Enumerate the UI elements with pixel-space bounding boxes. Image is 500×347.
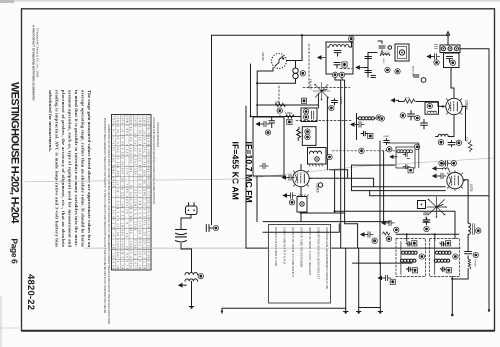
node terminal G2 — [329, 105, 334, 110]
faint line left of frame bottom — [0, 327, 22, 329]
voltage/resistance table (rotated) — [112, 115, 152, 271]
svg-text:4820-22: 4820-22 — [25, 274, 36, 310]
wire — [181, 215, 191, 230]
IF transformer T3 dashed box — [396, 239, 426, 277]
node terminal C — [339, 72, 344, 77]
junction dot — [190, 306, 192, 308]
capacitor C17 — [421, 120, 428, 130]
wire — [353, 262, 413, 264]
junction dot — [334, 210, 336, 212]
part callout box b — [368, 133, 373, 138]
AVC arrow — [318, 56, 325, 59]
wire AVC return — [263, 224, 339, 233]
wire — [452, 115, 454, 137]
wire left vertical bus — [211, 35, 213, 225]
electrolytic capacitor C11 — [176, 237, 187, 242]
svg-text:average operating stage, rathe: average operating stage, rather than an … — [81, 90, 86, 247]
node terminal E — [277, 108, 282, 113]
svg-text:WESTINGHOUSE H-202, H-204: WESTINGHOUSE H-202, H-204 — [9, 82, 21, 224]
capacitor C28 — [332, 99, 338, 106]
gang dashed link mid2 — [296, 119, 351, 121]
arrow with coil into V3 — [433, 167, 450, 173]
svg-text:FM RF: FM RF — [261, 52, 265, 61]
svg-text:12BE6: 12BE6 — [316, 183, 320, 193]
grid arrow into V2 — [442, 105, 445, 108]
node terminal S — [451, 161, 456, 166]
wire — [441, 105, 442, 107]
arrow tap — [179, 284, 186, 287]
note paragraph (rotated) — [48, 90, 92, 247]
wire top bus — [212, 34, 449, 36]
resistor R1 22K — [275, 103, 286, 106]
capacitor C20 — [442, 161, 450, 167]
RF choke L5 — [381, 52, 390, 64]
svg-text:OUTPUT 170 CKT 4820: OUTPUT 170 CKT 4820 % LOW — [274, 227, 278, 266]
capacitor C30 1MMF — [383, 136, 392, 152]
svg-text:ITEM PIN1 PIN2 PIN3 PIN4 PIN5: ITEM PIN1 PIN2 PIN3 PIN4 PIN5 PIN6 PIN7 … — [147, 116, 150, 270]
dashed AVC line — [332, 150, 395, 152]
node terminal K1 — [213, 225, 218, 230]
wire — [287, 35, 303, 60]
svg-text:OUTPUT OF TRANS. 3.2: OUTPUT OF TRANS. 3.2 4 MW OUTPUT — [291, 227, 295, 277]
svg-text:CONVERTER GRID DXL: CONVERTER GRID DXL IN CHASSIS CKT — [317, 227, 321, 280]
tuning capacitor TC1 FM RF — [272, 54, 287, 69]
wire — [181, 243, 192, 272]
svg-text:FM OSC: FM OSC — [309, 79, 313, 90]
svg-text:A PHOTOFACT STANDARD NOTATION: A PHOTOFACT STANDARD NOTATION SCHEMATIC — [32, 25, 36, 101]
capacitor C16 — [408, 111, 415, 121]
svg-text:AUDIO AMP: AUDIO AMP — [412, 66, 415, 78]
loop antenna plug P1 — [186, 203, 198, 215]
capacitor C22 — [378, 41, 392, 53]
wire — [257, 68, 273, 118]
output transformer T5 — [185, 272, 204, 281]
svg-text:GRID OF TUBE 450: GRID OF TUBE 450 GRID 50MW — [300, 227, 304, 268]
wire — [250, 64, 252, 117]
svg-text:19T8 -1V 0V 0V 6.3AC 0V 45V -8: 19T8 -1V 0V 0V 6.3AC 0V 45V -8V FM DET 1… — [120, 116, 123, 270]
node terminal H — [327, 154, 332, 159]
capacitor C3 with AVC arrow — [284, 193, 296, 205]
svg-text:in mind that it is possible to: in mind that it is possible to introduce… — [74, 90, 79, 247]
IF transformer T4 dashed box — [430, 239, 460, 277]
arrow with capacitor into V3 grid — [433, 173, 446, 179]
part callout box d — [301, 98, 306, 103]
svg-text:19T8: 19T8 — [469, 184, 473, 191]
wire — [300, 213, 358, 248]
oscillator coil unit B5 — [308, 148, 327, 167]
paper crease lower (faint) — [85, 247, 246, 249]
node terminal U — [395, 69, 400, 74]
speaker measurements table (rotated) — [269, 225, 331, 304]
node terminal M — [453, 254, 458, 259]
wire bundle L-bends — [309, 165, 489, 238]
coil L3 — [436, 134, 452, 145]
node terminal on AVC line — [359, 148, 364, 153]
node terminal J — [379, 116, 384, 121]
junction dot — [451, 314, 454, 317]
svg-text:12BE6 -1V 0V 6.3AC 0V 95V 95V: 12BE6 -1V 0V 6.3AC 0V 95V 95V -8V CONV 2… — [142, 116, 145, 270]
svg-text:SPEAKER GAIN MEASUREMENTS TAKE: SPEAKER GAIN MEASUREMENTS TAKEN AT 400 — [325, 227, 329, 289]
schematic group — [25, 32, 494, 317]
IF transformer T2 box — [388, 143, 420, 173]
wire above IF transformers — [396, 234, 459, 241]
wire — [452, 269, 468, 280]
svg-text:FM ANT: FM ANT — [474, 260, 477, 269]
capacitor C2 — [269, 117, 275, 128]
capacitor C1 — [206, 225, 213, 232]
wire long verticals — [335, 78, 384, 264]
node terminal Q — [415, 115, 420, 120]
wire — [462, 106, 465, 140]
svg-text:INPUT OF TRANS. 1.3: INPUT OF TRANS. 1.3 CKT 4820 GRID — [308, 227, 312, 275]
paper crease upper (faint) — [25, 158, 494, 182]
capacitor C29 stack — [424, 213, 429, 221]
wire — [256, 104, 318, 106]
svg-text:VOLTAGE READINGS: VOLTAGE READINGS — [156, 122, 159, 148]
wire output lead — [222, 308, 346, 313]
part callout box a — [342, 62, 347, 67]
antenna terminal D — [349, 36, 354, 41]
phono unit box B7 — [444, 53, 460, 68]
resistor R2 1MEG — [286, 115, 294, 118]
svg-text:470K: 470K — [405, 98, 410, 100]
svg-text:PHOTOFACT MEASUREMENTS TAKEN W: PHOTOFACT MEASUREMENTS TAKEN WITH VOLTOH… — [103, 118, 106, 313]
svg-text:The stage gain measured values: The stage gain measured values listed ab… — [87, 90, 92, 247]
wire — [451, 277, 453, 316]
svg-text:22K: 22K — [275, 100, 280, 104]
node terminal R — [439, 161, 444, 166]
svg-text:©Howard W. Sams & Co., Inc. 19: ©Howard W. Sams & Co., Inc. 1948 — [36, 28, 40, 77]
junction dot — [488, 309, 490, 311]
oscillator trimmer ST1 FM OSC — [313, 83, 330, 101]
tube V2 circle tag — [421, 78, 426, 83]
junction dot — [379, 262, 381, 264]
svg-text:VOLTAGE AND RESISTANCE READING: VOLTAGE AND RESISTANCE READINGS TAKEN IN… — [152, 117, 155, 204]
svg-text:Page 6: Page 6 — [10, 239, 20, 265]
wire — [318, 94, 327, 170]
trimmer unit U1 — [301, 108, 317, 122]
wire ground drops — [344, 248, 383, 314]
junction dot — [256, 82, 258, 84]
coupling caps C23 C24 — [356, 53, 377, 78]
trimmer capacitor C12 — [382, 220, 399, 232]
antenna peak symbol — [446, 32, 450, 36]
wire — [250, 116, 301, 118]
wire — [245, 106, 247, 248]
tube V1 12BE6 converter — [293, 168, 311, 188]
resistor R7 4.7K — [465, 137, 472, 152]
band switch S1 — [427, 197, 447, 218]
tube V3 19T8 detector — [447, 171, 465, 191]
resistor R9 470 — [383, 232, 392, 242]
resistor R6 — [404, 99, 415, 103]
node terminal P — [400, 113, 405, 118]
bottom frame thick line — [22, 330, 495, 332]
svg-text:placement of probes, the accur: placement of probes, the accuracy of ali… — [61, 90, 66, 247]
svg-text:TOTAL B+ 117V AC LINE 30MA DRA: TOTAL B+ 117V AC LINE 30MA DRAIN -- -- -… — [112, 116, 115, 270]
svg-text:35W4 95V -- 6.3AC -- 117V -- 1: 35W4 95V -- 6.3AC -- 117V -- 105V RECT 1… — [125, 116, 128, 270]
svg-text:CONDITIONS OF NO SIGNAL INPUT,: CONDITIONS OF NO SIGNAL INPUT, VOLUME CO… — [107, 124, 110, 325]
capacitor C25 — [414, 75, 419, 77]
junction dot — [406, 233, 408, 235]
wire — [451, 68, 454, 99]
wire grid bus — [263, 221, 390, 223]
junction dot — [434, 233, 436, 235]
wire — [399, 100, 442, 106]
svg-text:12BA6 0V 0V 6.3AC 0V 95V 95V 0: 12BA6 0V 0V 6.3AC 0V 95V 95V 0V IF 3.3M … — [138, 116, 141, 270]
gang dashed drop — [278, 86, 280, 104]
svg-text:1 MMF: 1 MMF — [383, 136, 390, 138]
scan top edge band — [0, 0, 500, 2]
node terminal A — [300, 71, 305, 76]
resistor R3 — [297, 127, 301, 141]
junction dot — [451, 278, 453, 280]
coil L4 with core — [463, 180, 481, 252]
shielded unit B9 — [395, 44, 409, 61]
wire bus lower — [246, 247, 460, 249]
capacitor C15 with arrow — [428, 54, 440, 65]
node terminal B — [332, 72, 337, 77]
IF coil unit B10 — [425, 102, 439, 114]
wire B+ rail right — [460, 49, 489, 310]
svg-text:1 MEG: 1 MEG — [285, 112, 293, 115]
oscillator coil T6 — [351, 114, 381, 140]
electrolytic capacitor C10 — [176, 230, 187, 235]
capacitor C21 — [423, 218, 430, 232]
FM antenna coil L6 — [468, 259, 471, 269]
coil L1 — [293, 61, 298, 79]
terminal strip TS1 — [435, 35, 461, 52]
scan left edge mark — [0, 0, 14, 3]
junction dot — [447, 34, 449, 36]
wire — [257, 79, 295, 84]
capacitor C18 — [448, 140, 461, 147]
wire — [185, 281, 194, 306]
RF unit box B1 — [253, 117, 284, 222]
AVC arrow — [392, 99, 399, 102]
junction dot — [279, 115, 281, 117]
gang dashed link vertical — [308, 44, 310, 88]
svg-text:reading is impractical. AVC is: reading is impractical. AVC is made inop… — [55, 90, 60, 247]
padder unit B6 — [297, 195, 309, 213]
svg-text:4.7K: 4.7K — [465, 137, 468, 142]
switch unit box B8 — [418, 201, 426, 209]
svg-text:12AT6 -.6V 0V 0V 6.3AC 38V --: 12AT6 -.6V 0V 0V 6.3AC 38V -- -- DET 10M… — [134, 116, 137, 270]
gang dashed link mid — [303, 87, 350, 89]
svg-text:IF=455 KC AM: IF=455 KC AM — [231, 142, 241, 200]
junction dot — [301, 34, 303, 36]
part callout box c — [287, 119, 292, 124]
trimmer capacitor C13 — [361, 232, 377, 244]
arrowhead — [221, 311, 224, 314]
wire — [300, 165, 302, 222]
node terminal L — [419, 254, 424, 259]
svg-text:urement operation, such as, ty: urement operation, such as, type of equi… — [68, 90, 73, 247]
tube V2 12BA6 IF amp — [446, 96, 464, 116]
trimmer capacitor C14 — [379, 275, 396, 284]
antenna coil box T1 — [326, 39, 353, 74]
svg-text:12BA6 0V 0V 6.3AC 0V 90V 95V -: 12BA6 0V 0V 6.3AC 0V 90V 95V -1V FM IF 3… — [116, 116, 119, 270]
capacitor C26 — [465, 252, 479, 259]
trimmer unit U2 — [302, 127, 316, 146]
paper crease across table (faint) — [269, 247, 332, 249]
svg-text:substituted for measurements.: substituted for measurements. — [48, 90, 53, 152]
dashed stub — [340, 68, 352, 70]
node terminal T — [385, 67, 390, 72]
tube V1 circle tag — [318, 183, 322, 187]
capacitor C27 with AVC arrow — [283, 175, 295, 181]
